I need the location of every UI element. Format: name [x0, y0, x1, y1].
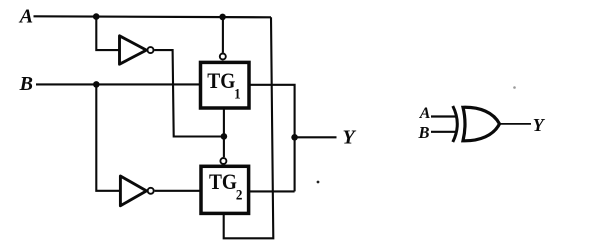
inverter U1 triangle — [120, 36, 147, 64]
wire B input to xor gate — [431, 131, 457, 133]
svg-text:A: A — [419, 105, 431, 122]
wire A input line — [34, 16, 272, 17]
wire A to TG1 top bubble — [222, 17, 224, 53]
svg-text:B: B — [418, 123, 430, 142]
bubble on TG1 top control — [220, 54, 226, 60]
transmission gate TG2 — [201, 166, 249, 213]
inverter U2 output bubble — [148, 188, 154, 194]
speck artifact — [513, 86, 516, 89]
wire B to inverter U2 input — [96, 84, 120, 190]
junction on A line (to inverter U1) — [93, 13, 100, 20]
junction node A' — [221, 133, 228, 140]
junction on B line (to inverter U2) — [93, 81, 100, 88]
wire TG1 output down to TG2 output — [249, 85, 295, 192]
wire A down right side to TG2 bottom terminal — [224, 17, 274, 238]
wire U1 output to junction node A' — [154, 50, 221, 136]
wire U2 output to TG2 input — [155, 190, 201, 192]
svg-text:Y: Y — [533, 115, 546, 135]
inverter U2 triangle — [120, 176, 146, 206]
svg-text:B: B — [19, 73, 33, 95]
xor gate U3 body — [463, 107, 500, 141]
junction on A line (to TG1 top) — [219, 14, 226, 21]
wire Y output lead — [295, 136, 337, 138]
svg-text:A: A — [18, 6, 33, 28]
svg-text:Y: Y — [343, 127, 357, 149]
wire TG1 bottom terminal to TG2 top bubble — [223, 108, 225, 157]
xor gate U3 leading arc — [453, 106, 458, 142]
wire xor output lead — [500, 123, 531, 125]
junction node Y — [291, 134, 298, 141]
inverter U1 output bubble — [148, 47, 154, 53]
transmission gate TG1 — [201, 62, 250, 108]
speck artifact — [317, 181, 320, 184]
wire A to inverter U1 input — [96, 17, 119, 51]
wire TG2 output — [249, 190, 295, 192]
wire A input to xor gate — [431, 115, 457, 117]
bubble on TG2 top control — [220, 158, 226, 164]
wire B input line — [36, 83, 200, 85]
